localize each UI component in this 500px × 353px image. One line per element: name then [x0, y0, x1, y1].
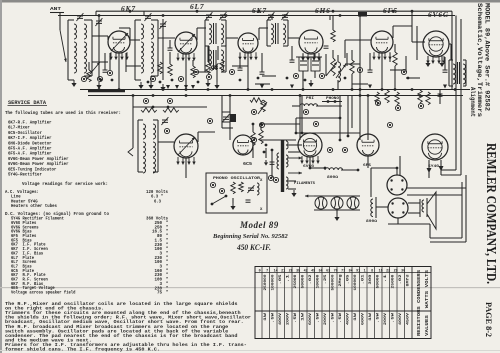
ground g10: [334, 210, 339, 221]
publisher name rotated: [483, 143, 498, 284]
power transformer primary: [277, 153, 279, 169]
ground g4: [160, 84, 165, 91]
tuning gang section 3: [222, 114, 229, 122]
svg-text:PRI: PRI: [306, 96, 314, 100]
pilot lamp P2: [331, 197, 343, 209]
choke coil L1: [338, 55, 341, 90]
svg-text:29: 29: [394, 269, 398, 273]
if transformer 1 lower secondary: [221, 46, 226, 72]
svg-text:450V: 450V: [407, 312, 411, 325]
pilot lamp P1: [315, 197, 327, 209]
svg-text:6K7 I.F. Plate: 6K7 I.F. Plate: [11, 243, 46, 248]
svg-text:": ": [166, 221, 169, 226]
svg-text:6.3: 6.3: [154, 198, 161, 204]
svg-text:Voltage across speaker field: Voltage across speaker field: [11, 291, 76, 296]
antenna lead: [50, 13, 67, 63]
svg-text:.5W: .5W: [317, 312, 321, 323]
svg-text:6V6G-Beam Power Amplifier: 6V6G-Beam Power Amplifier: [8, 156, 69, 162]
wire if2 to diode: [288, 37, 299, 39]
junction dot pairs under tubes: [100, 77, 410, 84]
terminal t5: [193, 69, 198, 74]
ground g9: [291, 190, 296, 197]
resistor bank r10: [133, 106, 207, 113]
svg-text:500000: 500000: [332, 275, 336, 291]
tube 6H6 detector: [299, 30, 323, 54]
terminal t20: [178, 76, 183, 81]
phono osc coil: [257, 183, 259, 195]
svg-text:21: 21: [281, 269, 285, 273]
svg-text:250000: 250000: [264, 275, 268, 291]
svg-text:91: 91: [356, 269, 360, 273]
svg-text:6K7 I.F. Bias: 6K7 I.F. Bias: [11, 251, 44, 256]
tube 6L7 mixer: [175, 32, 197, 54]
trimmer if2a: [267, 12, 274, 20]
terminal t18: [207, 118, 212, 123]
tuning gang section 2: [159, 19, 166, 80]
trimmer if1a: [205, 12, 212, 20]
alignment notes paragraph: [5, 301, 251, 353]
terminal t8: [319, 73, 324, 78]
svg-text:6F5-A.F. Amplifier: 6F5-A.F. Amplifier: [8, 151, 52, 157]
svg-text:75: 75: [157, 292, 163, 296]
svg-text:": ": [166, 234, 169, 239]
wire v11 bottom: [427, 160, 444, 178]
svg-text:2Meg: 2Meg: [339, 275, 343, 287]
junction dots row2: [271, 117, 399, 172]
resistor R2: [158, 62, 163, 74]
power transformer secondary hv: [286, 141, 288, 149]
svg-text:": ": [166, 238, 169, 243]
svg-text:600V: 600V: [362, 312, 366, 325]
wire short horizontals band: [92, 57, 420, 84]
ground g2: [96, 82, 101, 89]
tuning gang section 1: [95, 16, 102, 80]
power transformer core: [281, 140, 284, 192]
terminal t21: [206, 74, 211, 79]
ac voltages block: [5, 189, 57, 209]
wire socket v12 feed: [371, 168, 397, 197]
tube 6F5 af amplifier: [371, 31, 393, 53]
wire 6L7 grid: [158, 37, 175, 39]
svg-text:6F5 Plates: 6F5 Plates: [11, 234, 37, 239]
wire right rail outer: [460, 19, 462, 175]
svg-text:6F5: 6F5: [363, 164, 372, 168]
tube inner shields: [303, 37, 443, 154]
phono oscillator enclosure: [206, 173, 267, 213]
side caption model 89 rotated: [469, 3, 491, 117]
wire socket v13 to speaker: [408, 199, 420, 217]
resistor R14: [385, 90, 390, 103]
svg-text:6F5-A.F. Amplifier: 6F5-A.F. Amplifier: [8, 146, 52, 152]
ground g6: [308, 80, 313, 87]
svg-text:Alignment: Alignment: [469, 87, 476, 117]
terminal t10: [401, 69, 406, 74]
wire mid h2: [260, 123, 300, 125]
scan edge left: [0, 0, 2, 353]
svg-text:.1: .1: [287, 275, 291, 283]
if1 lower core: [214, 50, 217, 70]
svg-text:": ": [166, 230, 169, 235]
svg-text:Model 89: Model 89: [239, 220, 279, 230]
trimmer if2b: [281, 12, 288, 20]
ac plug leads: [264, 148, 268, 166]
volume control: [326, 50, 337, 76]
svg-text:400V: 400V: [279, 312, 283, 325]
svg-text:The following tubes are used i: The following tubes are used in this rec…: [5, 110, 121, 116]
svg-text:": ": [166, 291, 169, 296]
lamp feed arrow: [305, 195, 318, 198]
resistor R1 cathode: [87, 62, 92, 82]
svg-text:6K7-I.F. Amplifier: 6K7-I.F. Amplifier: [8, 135, 52, 141]
svg-text:": ": [166, 273, 169, 278]
antenna coil T-A primary: [68, 20, 77, 80]
svg-text:5Y4G Rectifier Filament: 5Y4G Rectifier Filament: [11, 217, 64, 222]
svg-text:0: 0: [259, 269, 261, 273]
terminal t4: [150, 76, 155, 81]
resistor R3: [206, 46, 211, 74]
wire 6K7 plate: [119, 28, 140, 40]
junction dots round5: [252, 123, 350, 142]
trimmer ant: [76, 13, 83, 21]
svg-text:6L7 Bias: 6L7 Bias: [11, 264, 32, 269]
wire 6f5 plate: [393, 26, 412, 38]
ground g8: [439, 60, 444, 67]
dc voltages block: [5, 211, 109, 296]
phono osc resistor Ra: [231, 182, 236, 194]
svg-text:10000: 10000: [317, 275, 321, 289]
svg-text:42: 42: [304, 269, 308, 273]
terminals extra mid: [251, 109, 392, 152]
wire osc plate: [198, 132, 215, 142]
terminal t12: [167, 98, 172, 103]
wire right vertical short: [451, 11, 453, 90]
grounds g11 g12: [148, 82, 219, 89]
phono osc terminal b: [210, 182, 215, 187]
svg-text:.02: .02: [399, 275, 403, 285]
trimmer osc a: [161, 117, 168, 125]
arrow across T1: [111, 33, 128, 51]
wire verticals round5: [302, 96, 348, 141]
wire 6h6 drops: [303, 54, 315, 90]
wire top rail AVC: [58, 15, 455, 17]
tube list: [8, 120, 69, 178]
svg-text:100000: 100000: [272, 275, 276, 291]
svg-text:6H6: 6H6: [315, 6, 331, 15]
vertical drops round3: [151, 60, 217, 82]
output transformer secondary: [463, 60, 466, 86]
wire v9 plate drop: [310, 157, 325, 168]
resistor R7: [393, 44, 398, 90]
trimmer rf: [144, 13, 151, 21]
svg-text:Schematic,Voltage,Trimmers: Schematic,Voltage,Trimmers: [476, 3, 483, 117]
capacitor block on rail: [358, 12, 367, 17]
speaker field coil 890: [366, 197, 378, 224]
wire 6K7if plate: [259, 28, 268, 40]
output transformer core: [458, 62, 460, 84]
ground arrows under bus extra: [260, 85, 447, 89]
phono osc terminal a: [219, 188, 224, 193]
ground g1: [71, 80, 76, 87]
wire 6L7 cathode drop: [185, 54, 187, 90]
svg-text:.5W: .5W: [294, 312, 298, 323]
capacitor C9: [438, 90, 443, 105]
svg-text:VALUES WATTS VOLTS: VALUES WATTS VOLTS: [426, 269, 430, 336]
trimmer if1 lower: [211, 63, 218, 71]
terminal t14: [375, 100, 380, 105]
resistor R22: [251, 124, 256, 158]
terminal t11: [143, 98, 148, 103]
svg-text:.01: .01: [362, 275, 366, 285]
wire osc drop: [185, 158, 187, 178]
wire mid rails row2: [260, 96, 360, 141]
resistor R16: [418, 90, 423, 103]
phono osc switch: [211, 195, 228, 206]
svg-text:6E5 Target Voltage: 6E5 Target Voltage: [11, 286, 55, 291]
terminal t7: [293, 73, 298, 78]
svg-text:": ": [166, 243, 169, 248]
svg-text:360 Volts: 360 Volts: [146, 216, 168, 222]
wire if1 rail drop: [208, 46, 210, 62]
pot arrows extra: [90, 62, 346, 78]
svg-text:former shield cans. The I.F. f: former shield cans. The I.F. frequency i…: [5, 347, 160, 353]
phono box x marks: [260, 179, 263, 212]
wire v10 bottom: [368, 156, 400, 175]
svg-text:PAGE 8-2: PAGE 8-2: [484, 302, 493, 337]
resistor R13: [375, 92, 380, 105]
svg-text:200V: 200V: [324, 312, 328, 325]
if transformer 2 primary: [267, 20, 274, 46]
wire socket bottom: [388, 218, 430, 238]
resistor R4: [220, 60, 225, 72]
svg-text:8: 8: [371, 269, 373, 273]
page number rotated: [484, 302, 493, 337]
svg-text:": ": [166, 247, 169, 252]
svg-text:": ": [166, 225, 169, 230]
svg-text:200V: 200V: [384, 312, 388, 325]
if1 core: [214, 23, 217, 44]
resistor R15: [395, 92, 400, 105]
oscillator coil secondary: [153, 120, 158, 173]
svg-text:6K7 R.F. Plate: 6K7 R.F. Plate: [11, 273, 46, 278]
wire 6L7 plate riser: [197, 28, 206, 40]
svg-text:8Mfd: 8Mfd: [406, 275, 411, 287]
if transformer 1 primary: [205, 20, 212, 46]
svg-text:200V: 200V: [287, 312, 291, 325]
resistor R6: [350, 50, 355, 90]
diode load box: [299, 57, 308, 71]
socket V12: [387, 175, 407, 195]
svg-text:Heaters other tubes: Heaters other tubes: [11, 203, 57, 209]
svg-text:300: 300: [369, 275, 373, 285]
choke PRI coil: [292, 96, 342, 106]
osc coil hook: [128, 96, 133, 157]
phono osc trimmer: [247, 185, 254, 193]
svg-text:.5W: .5W: [339, 312, 343, 323]
svg-text:1: 1: [364, 269, 366, 273]
svg-text:6V6G-Beam Power Amplifier: 6V6G-Beam Power Amplifier: [8, 161, 69, 167]
svg-text:6K7 R.F. Bias: 6K7 R.F. Bias: [11, 282, 44, 287]
wire bus lower: [88, 95, 463, 97]
svg-text:PHONO OSCILLATOR: PHONO OSCILLATOR: [213, 177, 261, 181]
tube pin stubs all: [109, 52, 445, 165]
svg-text:49: 49: [311, 269, 315, 273]
svg-text:70: 70: [334, 269, 338, 273]
tube triode V8: [233, 135, 253, 155]
choke 800 ohm: [325, 168, 358, 180]
capacitor block mid: [222, 112, 230, 122]
arrow across T2: [178, 34, 195, 52]
svg-text:REMLER COMPANY, LTD.: REMLER COMPANY, LTD.: [483, 143, 498, 284]
resistor R23: [259, 124, 264, 144]
svg-text:.05: .05: [279, 275, 283, 285]
phono jack: [322, 97, 342, 103]
wire v8 links: [222, 96, 233, 141]
wire 6v6 plate to OT: [449, 44, 451, 60]
antenna coil T-A secondary: [84, 20, 92, 76]
svg-text:.1: .1: [384, 275, 388, 283]
wire top rail B+: [96, 10, 452, 12]
resistor R20: [168, 64, 173, 76]
svg-text:6L7-Mixer: 6L7-Mixer: [8, 125, 30, 131]
svg-text:": ": [166, 286, 169, 291]
svg-text:6V6G Bias: 6V6G Bias: [11, 230, 32, 235]
capacitor C5: [168, 40, 173, 60]
svg-text:ANT: ANT: [50, 8, 62, 12]
tube V9 6V6G second: [298, 133, 322, 157]
svg-text:50000: 50000: [377, 275, 381, 289]
power transformer secondary fil2: [286, 177, 288, 189]
power transformer secondary fil1: [286, 155, 288, 167]
svg-text:600V: 600V: [309, 312, 313, 325]
svg-text:6V6G Plates: 6V6G Plates: [11, 221, 37, 226]
svg-text:77: 77: [341, 269, 345, 273]
phono osc cap: [246, 200, 251, 202]
svg-text:50000: 50000: [302, 275, 306, 289]
svg-text:Beginning Serial No. 92582: Beginning Serial No. 92582: [212, 233, 289, 240]
ground row under bus: [166, 85, 195, 89]
socket V13: [388, 198, 408, 218]
capacitors extra: [103, 46, 448, 74]
svg-text:RESISTORS CONDENSERS: RESISTORS CONDENSERS: [418, 269, 422, 336]
svg-text:": ": [166, 282, 169, 287]
terminal t13: [251, 109, 256, 114]
wire drops top band: [96, 11, 445, 76]
svg-text:6F5: 6F5: [383, 6, 398, 15]
svg-text:": ": [166, 265, 169, 270]
wire right rail inner: [455, 16, 457, 171]
wire if1 to grid: [226, 38, 238, 46]
terminal t2: [97, 76, 102, 81]
wire lamp rail top: [314, 195, 360, 197]
svg-text:.5W: .5W: [392, 312, 396, 323]
svg-text:25000: 25000: [392, 275, 396, 289]
phono osc resistor Rb: [239, 182, 244, 192]
rf coil T-B primary: [135, 20, 144, 80]
capacitor block mid2: [230, 114, 236, 122]
svg-text:": ": [166, 251, 169, 256]
if2 core: [276, 23, 279, 44]
arrow across T7: [178, 137, 195, 155]
svg-text:.05: .05: [347, 275, 351, 285]
svg-text:.5W: .5W: [272, 312, 276, 323]
svg-text:28: 28: [289, 269, 293, 273]
svg-text:SERVICE DATA: SERVICE DATA: [8, 100, 47, 106]
resistor R12: [258, 100, 267, 114]
terminal t16: [418, 103, 423, 108]
resistor R11: [250, 98, 263, 103]
line switch: [263, 144, 279, 183]
pilot lamp P3: [347, 197, 359, 209]
wire stage1 drop: [110, 53, 119, 90]
svg-text:": ": [166, 269, 169, 274]
svg-text:MODEL 89,Above Ser.# 92582: MODEL 89,Above Ser.# 92582: [484, 3, 491, 111]
tube V11 5Y4G rectifier: [422, 134, 448, 160]
resistor R17: [426, 92, 431, 105]
svg-text:": ": [166, 278, 169, 283]
resistor R21: [191, 66, 196, 78]
oscillator coil primary: [138, 120, 146, 173]
if transformer 1 lower primary: [205, 46, 212, 72]
wire 6K7 grid: [92, 36, 108, 40]
svg-text:7: 7: [266, 269, 268, 273]
tube 6C5 oscillator: [174, 134, 198, 158]
svg-text:15: 15: [379, 269, 383, 273]
svg-text:.25: .25: [324, 275, 328, 285]
svg-text:FILAMENTS: FILAMENTS: [294, 181, 315, 185]
svg-text:": ": [166, 256, 169, 261]
svg-text:6H6-Diode Detector: 6H6-Diode Detector: [8, 140, 52, 146]
svg-text:22: 22: [386, 269, 390, 273]
output transformer primary: [449, 60, 456, 86]
terminal t6: [229, 69, 234, 74]
terminal t17: [164, 128, 169, 133]
svg-text:6C5 Plate: 6C5 Plate: [11, 269, 34, 274]
phono osc ground: [230, 198, 235, 210]
svg-text:6C5: 6C5: [243, 163, 253, 167]
svg-text:800Ω: 800Ω: [327, 175, 339, 180]
svg-text:35: 35: [296, 269, 300, 273]
svg-text:.5W: .5W: [332, 312, 336, 323]
wire big loop right: [407, 170, 466, 242]
tube 6V6G power amplifier: [423, 31, 449, 57]
terminal t1: [81, 76, 86, 81]
speaker transformer: [422, 198, 427, 217]
svg-text:36: 36: [401, 269, 405, 273]
svg-text:5Y4G-Rectifier: 5Y4G-Rectifier: [8, 172, 42, 178]
svg-text:6C5-Oscillator: 6C5-Oscillator: [8, 130, 42, 136]
rf coil T-B secondary: [151, 20, 158, 76]
svg-text:6K7-R.F. Amplifier: 6K7-R.F. Amplifier: [8, 120, 52, 126]
svg-text:56: 56: [319, 269, 323, 273]
ground g3: [138, 82, 143, 89]
svg-text:890Ω: 890Ω: [366, 219, 378, 224]
wire pt sec leads: [288, 145, 302, 189]
wire 6f5 grid: [345, 40, 371, 58]
if transformer 2 secondary: [283, 20, 288, 46]
svg-text:.02: .02: [309, 275, 313, 285]
svg-text:450 KC-IF.: 450 KC-IF.: [236, 243, 271, 252]
speaker cone: [427, 192, 436, 229]
resistor R5: [331, 16, 336, 42]
svg-text:6E5-Tuning Indicator: 6E5-Tuning Indicator: [8, 166, 57, 172]
svg-text:6F5 Bias: 6F5 Bias: [11, 238, 32, 243]
wire osc grid: [158, 141, 174, 143]
diode load box 2: [311, 57, 320, 71]
terminal t15: [395, 105, 400, 110]
svg-text:6L7: 6L7: [190, 2, 204, 11]
scan crease line: [0, 287, 500, 288]
svg-text:D.C. Voltages: (no signal) Fro: D.C. Voltages: (no signal) From ground t…: [5, 211, 109, 217]
